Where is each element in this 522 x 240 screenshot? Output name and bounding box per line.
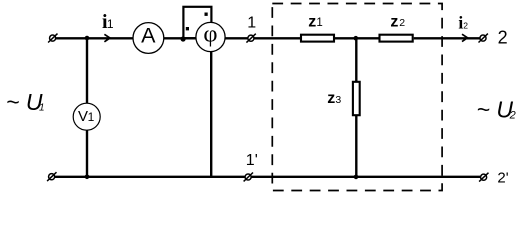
svg-text:1': 1'	[246, 152, 258, 169]
node: junction bottom wire / Z3 branch	[354, 175, 359, 180]
polarity dot (left inside coil box)	[186, 27, 189, 30]
dashed two-port network box	[272, 4, 442, 191]
wire: terminal 1 to Z1	[254, 37, 301, 39]
terminal (input top, left)	[48, 34, 57, 43]
voltmeter branch wire (upper)	[86, 38, 88, 103]
svg-text:2: 2	[509, 110, 516, 122]
phase-meter coil box	[183, 7, 211, 38]
svg-text:1: 1	[39, 103, 45, 114]
node: junction bottom wire / voltmeter branch	[85, 175, 90, 180]
wire: phase meter down to bottom rail	[210, 52, 212, 177]
terminal (input bottom, left)	[47, 172, 56, 181]
wire: bottom rail left section	[55, 176, 245, 178]
wire: input top terminal to ammeter	[56, 37, 133, 39]
terminal 1	[246, 34, 255, 43]
svg-text:~ U: ~ U	[6, 89, 43, 115]
terminal 2	[479, 34, 488, 43]
ammeter A	[133, 23, 164, 54]
polarity dot (top right of coil box)	[205, 13, 208, 16]
node: coil box left edge on wire	[181, 36, 186, 41]
svg-text:φ: φ	[203, 20, 217, 47]
node: junction top wire / voltmeter branch	[85, 36, 90, 41]
svg-text:1: 1	[247, 15, 256, 32]
node: junction top wire / Z3 branch	[354, 36, 359, 41]
wire: bottom rail right section	[251, 176, 480, 178]
phase meter phi	[196, 20, 225, 51]
svg-text:2': 2'	[497, 170, 508, 187]
svg-text:A: A	[141, 24, 156, 48]
Z3 branch: resistor down to bottom rail	[355, 115, 357, 177]
svg-text:1: 1	[316, 17, 322, 29]
svg-text:z: z	[308, 13, 316, 30]
wire: ammeter to phase meter	[164, 37, 197, 39]
svg-text:2: 2	[463, 21, 468, 31]
voltmeter V1	[73, 103, 100, 130]
svg-text:1: 1	[88, 110, 95, 124]
svg-text:2: 2	[399, 17, 405, 29]
wire: Z1 to Z2	[335, 37, 380, 39]
resistor Z2	[380, 35, 413, 42]
svg-text:z: z	[390, 13, 398, 30]
svg-text:3: 3	[335, 94, 341, 106]
terminal 2'	[479, 173, 488, 182]
svg-text:V: V	[78, 108, 88, 125]
voltmeter branch wire (lower)	[86, 130, 88, 177]
resistor Z3	[353, 82, 360, 115]
wire: phase meter to terminal 1	[225, 37, 248, 39]
svg-text:~ U: ~ U	[477, 96, 514, 122]
svg-text:z: z	[327, 90, 335, 107]
terminal 1'	[244, 173, 253, 182]
svg-text:2: 2	[498, 28, 508, 48]
current arrow i1	[104, 34, 110, 42]
svg-text:1: 1	[107, 17, 114, 31]
Z3 branch: top wire down to resistor	[355, 38, 357, 82]
current arrow i2	[462, 34, 468, 41]
resistor Z1	[301, 35, 334, 42]
wire: Z2 to terminal 2	[414, 37, 480, 39]
